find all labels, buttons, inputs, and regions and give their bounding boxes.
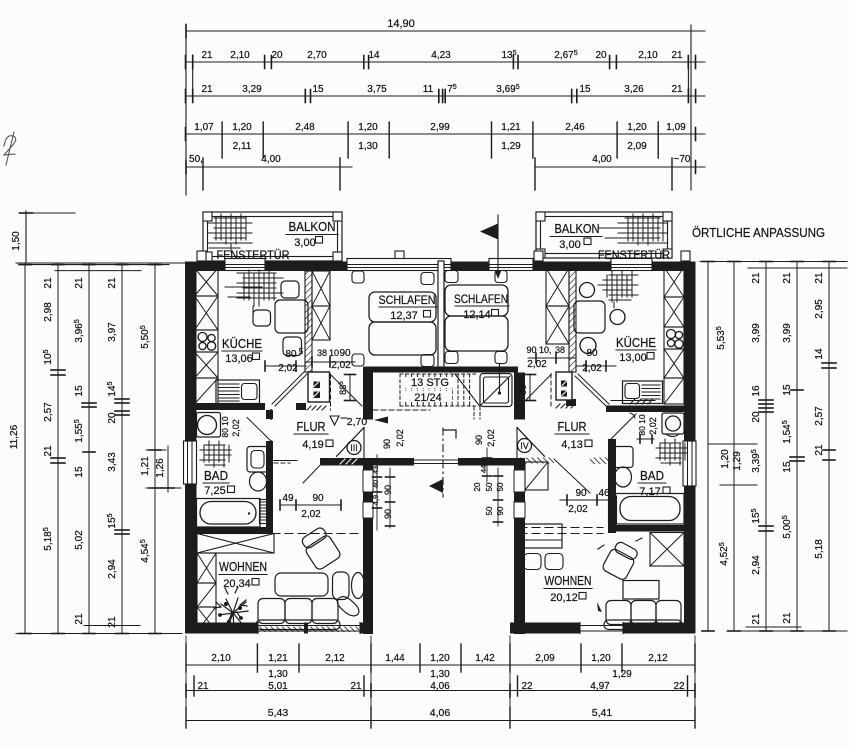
svg-text:49: 49 <box>282 493 294 504</box>
svg-text:90: 90 <box>382 439 392 449</box>
top dimension row 5 left <box>186 166 352 168</box>
svg-text:15: 15 <box>312 84 324 95</box>
svg-text:BALKON: BALKON <box>555 222 600 236</box>
wc left <box>247 447 268 473</box>
svg-text:SCHLAFEN: SCHLAFEN <box>379 293 436 307</box>
svg-text:1,07: 1,07 <box>194 122 214 133</box>
svg-text:15: 15 <box>74 466 85 478</box>
svg-text:50: 50 <box>485 482 494 491</box>
sofa right <box>606 601 631 625</box>
stove door dim 88 <box>349 374 351 401</box>
right dim strip bars <box>700 261 847 263</box>
svg-text:BALKON: BALKON <box>289 220 336 234</box>
svg-text:21: 21 <box>107 277 118 289</box>
svg-text:2,02: 2,02 <box>395 429 405 447</box>
svg-text:21: 21 <box>43 445 54 457</box>
left balcony <box>203 212 342 261</box>
top dimension row 5 right <box>535 166 705 168</box>
staircase diagonal <box>455 374 480 407</box>
svg-text:2,70: 2,70 <box>307 50 327 61</box>
svg-text:1,20: 1,20 <box>627 122 647 133</box>
section line through stairs <box>499 364 501 392</box>
stove unit right <box>556 372 572 400</box>
svg-text:21: 21 <box>197 681 209 692</box>
svg-text:20: 20 <box>107 412 118 424</box>
svg-text:1,50: 1,50 <box>11 231 22 251</box>
shaft wall right <box>569 268 576 372</box>
svg-text:~70: ~70 <box>674 154 691 165</box>
svg-text:1,42: 1,42 <box>475 653 495 664</box>
svg-text:90: 90 <box>383 485 393 495</box>
svg-text:KÜCHE: KÜCHE <box>616 336 656 350</box>
wohnen dashed line left <box>272 533 362 535</box>
svg-text:3,00: 3,00 <box>294 237 315 249</box>
top dimension line 14,90 <box>186 30 705 32</box>
top exterior wall <box>185 262 695 272</box>
svg-text:1,09: 1,09 <box>666 122 686 133</box>
svg-text:3,26: 3,26 <box>624 84 644 95</box>
bad left walls <box>266 410 273 419</box>
svg-text:3,00: 3,00 <box>559 239 580 251</box>
svg-text:80 10: 80 10 <box>637 414 647 436</box>
towel radiator right <box>609 496 617 524</box>
svg-text:4,06: 4,06 <box>430 681 450 692</box>
svg-text:2,02: 2,02 <box>527 359 547 370</box>
svg-text:90: 90 <box>496 506 505 515</box>
svg-text:13 STG: 13 STG <box>411 377 449 389</box>
svg-text:40: 40 <box>371 480 380 488</box>
left strip ticks <box>19 264 31 266</box>
svg-text:38: 38 <box>317 348 327 358</box>
svg-text:21: 21 <box>782 272 793 284</box>
svg-text:5,01: 5,01 <box>268 681 288 692</box>
svg-text:1,20: 1,20 <box>430 653 450 664</box>
svg-text:3,75: 3,75 <box>367 84 387 95</box>
bad fixtures left: washbasin <box>197 413 221 438</box>
svg-text:2,02: 2,02 <box>648 417 658 435</box>
svg-text:13,06: 13,06 <box>225 353 253 365</box>
svg-text:3,43: 3,43 <box>107 452 118 472</box>
svg-text:2,57: 2,57 <box>43 402 54 422</box>
kitchen table right <box>574 301 605 333</box>
svg-text:3,99: 3,99 <box>782 323 793 343</box>
svg-text:20: 20 <box>473 482 482 491</box>
svg-text:2,02: 2,02 <box>486 429 496 447</box>
section arrow <box>480 224 498 240</box>
right balcony <box>536 212 672 258</box>
svg-text:90: 90 <box>312 493 324 504</box>
court dim lines left <box>376 455 378 530</box>
bottom-left exterior wall <box>185 623 371 634</box>
svg-text:50: 50 <box>496 482 505 491</box>
svg-text:80 10: 80 10 <box>220 416 230 438</box>
left dim strip verticals <box>24 263 26 633</box>
kitchen tile hatch right <box>598 271 638 308</box>
right balcony hatch <box>598 214 667 245</box>
svg-text:WOHNEN: WOHNEN <box>545 574 592 588</box>
svg-text:22: 22 <box>521 681 533 692</box>
svg-text:90: 90 <box>383 509 393 519</box>
svg-text:7,25: 7,25 <box>204 485 225 497</box>
svg-text:2,12: 2,12 <box>648 653 668 664</box>
chaise left <box>333 572 350 600</box>
top dimension row 2 <box>186 61 705 63</box>
svg-text:SCHLAFEN: SCHLAFEN <box>454 292 508 306</box>
svg-text:12,14: 12,14 <box>463 309 491 321</box>
bathtub left <box>197 499 261 528</box>
svg-text:16: 16 <box>751 385 762 397</box>
bottom dim row 1 <box>186 664 695 666</box>
landing arrow <box>374 417 388 424</box>
stair hall top wall <box>363 367 518 373</box>
svg-text:21: 21 <box>350 681 362 692</box>
svg-text:21: 21 <box>671 50 683 61</box>
kitchen threshold hatch left <box>241 404 264 409</box>
svg-text:4,97: 4,97 <box>590 681 610 692</box>
wohnen dashed lines right <box>519 527 603 529</box>
svg-text:2,70: 2,70 <box>347 416 368 428</box>
bad threshold right <box>630 399 653 404</box>
flur-wohnen door left <box>273 460 297 462</box>
svg-text:90: 90 <box>575 488 587 499</box>
kitchen table left <box>275 300 308 333</box>
svg-text:43: 43 <box>371 466 380 474</box>
svg-text:21: 21 <box>107 616 118 628</box>
left dim strip bars <box>22 264 169 266</box>
svg-text:20: 20 <box>271 50 283 61</box>
svg-text:14,90: 14,90 <box>387 18 415 30</box>
svg-text:1,29: 1,29 <box>501 141 521 152</box>
svg-text:FLUR: FLUR <box>558 420 587 434</box>
svg-text:3,29: 3,29 <box>242 84 262 95</box>
svg-text:11,26: 11,26 <box>9 424 20 449</box>
svg-text:21: 21 <box>74 613 85 625</box>
apartment entry door left <box>363 428 365 459</box>
entry mats right <box>519 458 554 464</box>
stove threshold hatch right <box>556 404 575 408</box>
svg-text:1,29: 1,29 <box>612 669 632 680</box>
svg-text:21: 21 <box>671 84 683 95</box>
svg-text:4,06: 4,06 <box>430 707 451 719</box>
svg-text:1,21: 1,21 <box>140 456 151 476</box>
entry axis line <box>443 430 456 438</box>
svg-text:BAD: BAD <box>204 469 228 483</box>
bad door dim left <box>280 504 341 506</box>
svg-text:21: 21 <box>74 277 85 289</box>
center parting wall <box>438 261 444 367</box>
court top wall with entry <box>373 458 414 466</box>
svg-text:22: 22 <box>673 681 685 692</box>
svg-text:III: III <box>350 443 358 453</box>
right strip ticks <box>702 261 714 263</box>
svg-text:11: 11 <box>423 84 434 95</box>
entry mat diag right <box>554 459 590 493</box>
flur door dim right <box>560 499 612 501</box>
svg-text:4,00: 4,00 <box>261 154 281 165</box>
kitchen south wall left <box>197 403 266 410</box>
top dim frame verticals <box>185 25 187 195</box>
svg-text:3,99: 3,99 <box>751 323 762 343</box>
svg-text:IV: IV <box>520 441 529 451</box>
svg-text:21: 21 <box>814 272 825 284</box>
svg-text:44: 44 <box>479 465 488 473</box>
bad tile hatch left <box>200 441 231 467</box>
svg-text:20,12: 20,12 <box>550 592 578 604</box>
wohnen wardrobe right <box>650 533 684 567</box>
bottom-right exterior wall <box>510 623 695 634</box>
svg-text:15: 15 <box>579 84 591 95</box>
lower flight dashes <box>473 407 475 419</box>
svg-text:5,18: 5,18 <box>814 539 825 559</box>
svg-text:15: 15 <box>782 461 793 473</box>
svg-text:1,20: 1,20 <box>591 653 611 664</box>
bad tile hatch right <box>656 439 687 465</box>
staircase labels <box>404 377 455 388</box>
svg-text:KÜCHE: KÜCHE <box>222 337 262 351</box>
flur corner wall left <box>320 458 373 466</box>
svg-text:2,02: 2,02 <box>301 509 321 520</box>
bad door swing right top <box>611 414 636 439</box>
right exterior wall <box>684 262 696 634</box>
stove door swing line right <box>550 374 552 408</box>
kitchen tile hatch left <box>225 270 283 312</box>
right court wall <box>514 458 525 634</box>
wardrobe schlafen left <box>312 271 330 306</box>
svg-text:15: 15 <box>782 384 793 396</box>
shaft wall left <box>305 271 312 372</box>
svg-text:5: 5 <box>299 347 304 356</box>
svg-text:46: 46 <box>598 488 610 499</box>
svg-text:90: 90 <box>474 435 484 445</box>
svg-text:2,94: 2,94 <box>751 555 762 575</box>
bathtub right <box>615 494 684 525</box>
svg-text:21/24: 21/24 <box>414 392 442 404</box>
right dim strip verticals <box>707 263 709 631</box>
landing line <box>373 409 430 411</box>
schlafen bed left <box>369 292 436 322</box>
svg-text:50,: 50, <box>189 154 203 165</box>
svg-text:21: 21 <box>814 444 825 456</box>
svg-text:1,30: 1,30 <box>430 669 450 680</box>
svg-text:20: 20 <box>751 411 762 423</box>
svg-text:21: 21 <box>751 272 762 284</box>
svg-text:21: 21 <box>751 613 762 625</box>
svg-text:2,09: 2,09 <box>627 141 647 152</box>
svg-text:4,19: 4,19 <box>302 439 323 451</box>
svg-text:12,37: 12,37 <box>390 310 418 322</box>
wc right <box>613 447 633 468</box>
svg-text:2,02: 2,02 <box>231 419 241 437</box>
wardrobe schlafen right <box>546 268 569 306</box>
svg-text:80: 80 <box>586 348 598 359</box>
svg-text:1,21: 1,21 <box>501 122 521 133</box>
stove door swing line left <box>330 374 332 410</box>
svg-text:50: 50 <box>485 506 494 515</box>
kitchen counter left <box>216 380 260 404</box>
entry arrow <box>429 479 443 493</box>
svg-text:5,41: 5,41 <box>592 707 613 719</box>
bad right walls <box>608 439 616 533</box>
apartment III marker <box>347 441 361 455</box>
svg-text:1,21: 1,21 <box>268 653 288 664</box>
stove door dim 88 right <box>529 374 531 401</box>
svg-text:ÖRTLICHE ANPASSUNG: ÖRTLICHE ANPASSUNG <box>692 226 825 240</box>
coffee table left <box>275 573 328 596</box>
svg-text:1,20: 1,20 <box>720 449 731 469</box>
apartment IV marker <box>518 439 532 453</box>
coffee table right <box>623 581 659 600</box>
svg-text:3,97: 3,97 <box>107 322 118 342</box>
svg-text:4,00: 4,00 <box>592 154 612 165</box>
svg-text:1,20: 1,20 <box>232 122 252 133</box>
towel radiator left <box>260 500 268 524</box>
svg-text:21: 21 <box>201 84 213 95</box>
kitchen south wall right <box>606 406 684 413</box>
svg-text:80: 80 <box>285 349 297 360</box>
svg-text:90: 90 <box>339 348 351 359</box>
staircase upper flight box <box>480 374 512 407</box>
svg-text:14: 14 <box>368 50 380 61</box>
svg-text:1,44: 1,44 <box>385 653 405 664</box>
svg-text:2,99: 2,99 <box>430 122 450 133</box>
washbasin right <box>662 413 684 434</box>
sofa left <box>258 599 285 624</box>
balcony depth dim 1,50 <box>25 211 27 263</box>
stair hall side walls <box>363 373 373 420</box>
apartment entry door right <box>516 428 518 459</box>
bottom extension lines <box>185 636 187 707</box>
wall door posts <box>197 251 206 261</box>
svg-text:1,30: 1,30 <box>268 669 288 680</box>
svg-text:4,13: 4,13 <box>561 439 582 451</box>
flur closet right <box>525 462 548 490</box>
plant left <box>214 587 248 628</box>
side oval left <box>352 573 365 599</box>
svg-text:20: 20 <box>595 50 607 61</box>
svg-text:5,02: 5,02 <box>74 530 85 550</box>
svg-text:4,9: 4,9 <box>371 495 380 505</box>
svg-text:14: 14 <box>814 348 825 360</box>
dining set right <box>524 524 562 548</box>
kitchen door swing left <box>272 372 304 404</box>
cursor mark <box>597 602 602 612</box>
svg-text:2,94: 2,94 <box>107 559 118 579</box>
svg-text:2,02: 2,02 <box>278 363 298 374</box>
svg-text:2,02: 2,02 <box>568 504 588 515</box>
svg-text:2,10: 2,10 <box>638 50 658 61</box>
svg-text:2,57: 2,57 <box>814 406 825 426</box>
kitchen cabinets right <box>664 267 684 297</box>
top dimension row 4 <box>186 133 705 135</box>
bad door swing left <box>247 418 271 442</box>
svg-text:90 10,: 90 10, <box>526 345 551 355</box>
svg-text:2,12: 2,12 <box>325 653 345 664</box>
flur height mark left <box>330 416 339 425</box>
wohnen wardrobe left <box>197 534 274 554</box>
kitchen counter right <box>623 381 663 404</box>
svg-text:2,11: 2,11 <box>233 141 252 152</box>
schlafen bed right <box>445 285 508 316</box>
stove threshold hatch <box>307 406 326 410</box>
svg-text:2,10: 2,10 <box>230 50 250 61</box>
svg-text:4,23: 4,23 <box>431 50 451 61</box>
svg-text:21: 21 <box>782 612 793 624</box>
svg-text:1,26: 1,26 <box>155 458 166 478</box>
staircase treads <box>400 374 476 406</box>
left balcony hatch <box>208 214 252 252</box>
hand-written mark <box>4 132 16 165</box>
svg-text:FLUR: FLUR <box>297 420 326 434</box>
svg-text:2,95: 2,95 <box>814 299 825 319</box>
svg-text:1,20: 1,20 <box>358 122 378 133</box>
kitchen cabinets left <box>195 268 219 296</box>
left court wall <box>363 458 373 634</box>
svg-text:15: 15 <box>74 385 85 397</box>
top dimension row 3 <box>186 95 705 97</box>
svg-text:2,46: 2,46 <box>565 122 585 133</box>
svg-text:21: 21 <box>201 50 213 61</box>
svg-text:2,98: 2,98 <box>43 302 54 322</box>
armchair left <box>299 526 342 571</box>
svg-text:5,43: 5,43 <box>268 707 289 719</box>
svg-text:1,30: 1,30 <box>358 141 378 152</box>
svg-text:BAD: BAD <box>640 469 664 483</box>
armchair right apartment <box>601 540 639 581</box>
svg-text:2,10: 2,10 <box>211 653 231 664</box>
svg-text:2,48: 2,48 <box>295 122 315 133</box>
svg-text:13,00: 13,00 <box>619 352 647 364</box>
left exterior wall <box>185 262 197 634</box>
svg-text:WOHNEN: WOHNEN <box>219 560 267 574</box>
svg-text:2,09: 2,09 <box>535 653 555 664</box>
bottom dim row 3 <box>186 720 695 722</box>
svg-text:21: 21 <box>43 277 54 289</box>
kitchen door swing right <box>578 374 609 404</box>
svg-text:1,29: 1,29 <box>732 451 743 471</box>
stove unit left <box>308 372 330 402</box>
